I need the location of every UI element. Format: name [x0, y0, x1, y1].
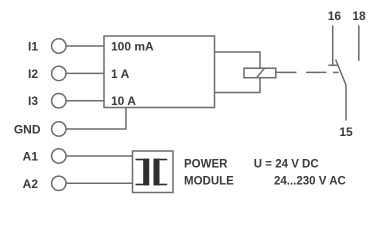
wire box to relay top — [215, 52, 261, 68]
svg-text:I1: I1 — [28, 40, 38, 54]
wire I1 to fuse box — [66, 45, 104, 47]
mechanical link solid segment — [276, 71, 297, 73]
wire relay to box bottom — [215, 78, 261, 93]
wire I2 to fuse box — [66, 72, 104, 74]
svg-text:I3: I3 — [28, 94, 38, 108]
fuse rating box U1 — [104, 36, 215, 108]
switch blade — [336, 60, 346, 86]
svg-text:GND: GND — [14, 123, 41, 137]
svg-text:A2: A2 — [23, 177, 39, 191]
terminal I3 circle — [52, 94, 66, 108]
terminal GND circle — [52, 122, 66, 136]
relay coil K1 — [244, 68, 276, 78]
svg-text:18: 18 — [352, 9, 366, 23]
mechanical link dash 2 — [333, 71, 339, 73]
svg-text:16: 16 — [328, 9, 342, 23]
contact 18 lead — [358, 25, 360, 61]
mechanical link dash 1 — [306, 71, 327, 73]
contact 15 lead — [345, 85, 347, 121]
contact 16 lead — [332, 25, 334, 65]
svg-text:15: 15 — [339, 125, 353, 139]
wire I3 to fuse box — [66, 100, 104, 102]
contact 16 bar — [328, 64, 337, 66]
transformer icon right bar — [154, 159, 160, 186]
svg-text:100 mA: 100 mA — [111, 40, 154, 54]
transformer icon left bar — [143, 159, 149, 186]
terminal A2 circle — [52, 176, 66, 190]
svg-text:I2: I2 — [28, 67, 38, 81]
svg-text:POWER: POWER — [184, 158, 228, 170]
svg-text:A1: A1 — [23, 150, 39, 164]
wire GND horizontal — [66, 108, 126, 130]
svg-text:24...230 V AC: 24...230 V AC — [274, 175, 346, 187]
svg-text:U = 24 V DC: U = 24 V DC — [254, 158, 319, 170]
transformer icon serifs — [136, 160, 168, 185]
svg-text:1 A: 1 A — [111, 67, 130, 81]
terminal I1 circle — [52, 39, 66, 53]
wire A2 to power module — [66, 182, 132, 184]
power module box — [133, 151, 174, 193]
terminal I2 circle — [52, 66, 66, 80]
relay coil slash — [257, 68, 265, 77]
wire A1 to power module — [66, 155, 132, 157]
svg-text:10 A: 10 A — [111, 94, 136, 108]
svg-text:MODULE: MODULE — [184, 175, 234, 187]
terminal A1 circle — [52, 149, 66, 163]
